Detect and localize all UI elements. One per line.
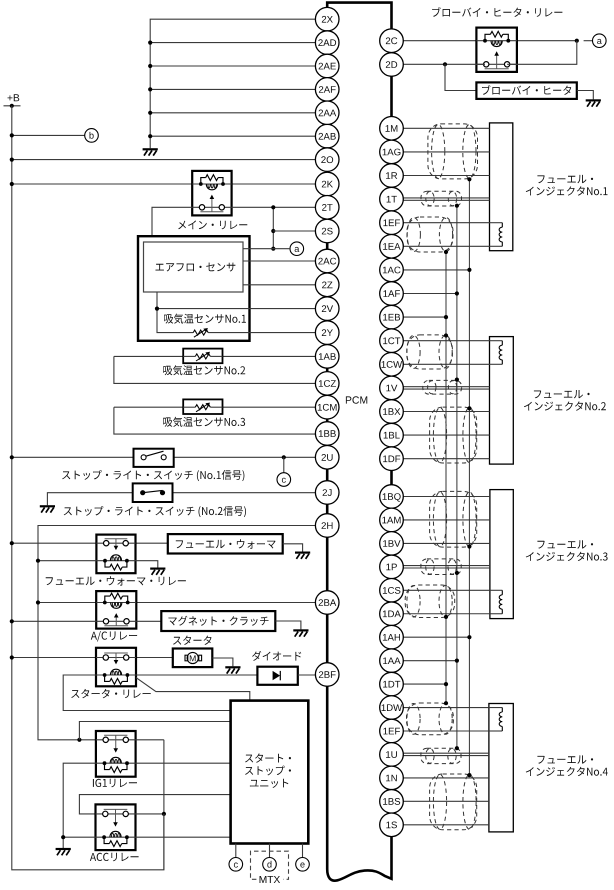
pin 1P <box>380 555 404 579</box>
label injector No.4 line1 <box>537 755 593 763</box>
PCM label <box>346 396 367 403</box>
wire 1AG <box>403 151 489 153</box>
label starter <box>173 636 212 645</box>
pin 1BQ <box>380 485 404 509</box>
unit start-stop (スタート・ストップ・ユニット) <box>231 701 309 844</box>
fuel injector No.3 box <box>490 490 513 619</box>
pin 2AE <box>315 54 339 78</box>
wire 2S branch <box>273 230 315 232</box>
wire battery bus <box>12 106 164 870</box>
wire 1P twisted pair <box>403 565 490 567</box>
wire relay contact right leg <box>507 41 577 65</box>
pin 1BX <box>380 400 404 424</box>
label injector No.2 line2 <box>524 401 606 410</box>
pin 1CS <box>380 579 404 603</box>
pin 1DF <box>380 447 404 471</box>
switch stop light No.1 <box>12 456 134 458</box>
shield injector No.3 signal wires <box>430 491 477 547</box>
wire left column tail with break <box>327 686 391 880</box>
relay starter (スタータ・リレー) <box>12 657 96 659</box>
wire airflow pin3 to 2Z <box>243 284 315 286</box>
pin 1CM <box>315 395 339 419</box>
pin 1AM <box>380 508 404 532</box>
wire 2AA to ground bus <box>150 112 315 114</box>
pin 1CW <box>380 353 404 377</box>
injector No.2 coil 1CT/1CW <box>490 340 503 342</box>
shield injector No.3 coil pair <box>405 585 455 618</box>
wire 1AM <box>403 519 490 521</box>
switch stop light No.2 <box>47 493 132 506</box>
label unit line2 <box>245 766 291 776</box>
shield injector No.2 signal wires <box>430 407 477 463</box>
ground starter motor <box>212 658 233 666</box>
pin 1CT <box>380 329 404 353</box>
wire 1N <box>403 777 489 779</box>
pin 1AC <box>380 258 404 282</box>
wire 2O feed <box>12 159 316 161</box>
label diode <box>252 651 301 661</box>
ground blow-by heater <box>577 91 594 100</box>
pin 1AA <box>380 649 404 673</box>
shield 1P pair <box>421 559 461 575</box>
pin 1V <box>380 376 404 400</box>
node +B <box>8 94 20 101</box>
pin 2T <box>315 196 339 220</box>
box blow-by heater (ブローバイ・ヒータ) <box>476 82 576 99</box>
label unit line3 <box>250 779 288 788</box>
pin 2H <box>315 514 339 538</box>
pin 2AD <box>315 31 339 55</box>
shield 1U pair <box>421 748 461 763</box>
wire 1BX <box>403 411 489 413</box>
ground IG1/ACC coils <box>63 836 95 838</box>
pin 1DT <box>380 672 404 696</box>
injector No.4 coil 1DW/1EF <box>489 707 502 709</box>
sensor airflow (エアフロ・センサ) outer box <box>138 236 250 341</box>
pin 1AH <box>380 625 404 649</box>
node a (left) <box>290 242 304 256</box>
wire shield drain 1 (1AC) <box>468 179 470 775</box>
pin 1BS <box>380 790 404 814</box>
pin 2X <box>315 7 339 31</box>
shield 1T pair <box>421 191 462 206</box>
pin 1BB <box>315 422 339 446</box>
label fuel warmer <box>176 539 276 548</box>
wire 2AE to ground bus <box>150 65 315 67</box>
MTX dashed box <box>251 851 289 879</box>
wire airflow pin2 to 2AC <box>243 260 315 262</box>
label injector No.3 line1 <box>537 540 593 548</box>
pin 2V <box>315 297 339 321</box>
node d <box>269 844 271 858</box>
wire 1T twisted pair <box>403 197 489 199</box>
node c (bottom) <box>235 844 237 858</box>
label main relay <box>178 220 247 229</box>
label injector No.1 line1 <box>537 175 593 183</box>
pin 2Z <box>315 273 339 297</box>
fuel injector No.4 box <box>489 704 513 832</box>
pin 2AF <box>315 78 339 102</box>
node b <box>12 134 85 136</box>
label intake air temp sensor No.1 <box>164 314 246 324</box>
wire 1AH shield return <box>403 636 469 638</box>
wire to blow-by heater <box>445 64 476 90</box>
ground magnet clutch <box>275 621 301 629</box>
label A/C relay <box>91 631 137 642</box>
pin 2U <box>315 446 339 470</box>
wire IG1 coil left down to ground rail <box>63 763 96 848</box>
label stop light switch No.2 <box>64 506 246 517</box>
label airflow sensor <box>156 263 236 272</box>
pin 1U <box>380 743 404 767</box>
pin 1N <box>380 766 404 790</box>
wire 1BQ <box>403 496 490 498</box>
wire 1V twisted pair <box>403 386 489 388</box>
pin 2O <box>315 148 339 172</box>
pin 1AB <box>315 345 339 369</box>
wire airflow IAT to 2V and 2Y <box>157 292 193 333</box>
wire ACC coil right to unit <box>136 836 231 838</box>
relay IG1 (IG1リレー) <box>77 738 81 742</box>
wire shield drain 3 (1EB) <box>445 252 447 703</box>
thermistor intake air temp No.1 <box>193 330 208 335</box>
wire 2AF to ground bus <box>150 88 315 90</box>
injector No.3 coil 1CS/1DA <box>490 589 502 591</box>
wire 1EB shield return <box>403 316 446 318</box>
relay main (メイン・リレー) <box>192 171 231 216</box>
wire main relay contact left to airflow sensor <box>152 207 192 236</box>
pin 1M <box>380 117 404 141</box>
wire 2H control line <box>38 526 315 740</box>
shield injector No.2 coil pair <box>407 335 453 369</box>
relay ACC (ACCリレー) <box>79 795 230 814</box>
wire 1U twisted pair <box>403 752 489 754</box>
wire main relay contact to 2T <box>232 206 316 208</box>
wire 1AF shield return <box>403 293 457 295</box>
relay fuel warmer (フューエル・ウォーマ・リレー) <box>12 542 97 544</box>
label fuel warmer relay <box>46 576 186 585</box>
node e <box>302 844 304 858</box>
ground fuel warmer relay coil <box>136 561 158 568</box>
PCM connector spine <box>327 3 391 29</box>
wire main relay feed <box>12 183 192 185</box>
wire 1BL <box>403 434 489 436</box>
relay blow-by heater (ブローバイ・ヒータ・リレー) <box>403 40 476 42</box>
wire airflow pin1 to junction and a <box>243 248 290 250</box>
wire IG1 coil right to unit <box>136 762 231 764</box>
label injector No.2 line1 <box>534 390 590 398</box>
shield 1V pair <box>423 380 462 394</box>
wire 1S <box>403 824 489 826</box>
label unit line1 <box>245 753 291 762</box>
pin 2AC <box>315 249 339 273</box>
pin 2C <box>380 29 404 53</box>
pin 1AF <box>380 282 404 306</box>
wire 1AA shield return <box>403 660 457 662</box>
wire 1AC shield return <box>403 269 469 271</box>
pin 1EB <box>380 305 404 329</box>
pin 2AA <box>315 101 339 125</box>
node a (top right) <box>584 40 593 42</box>
label injector No.1 line2 <box>526 186 608 195</box>
wire 1M <box>403 127 489 129</box>
label blow-by heater relay <box>432 7 562 17</box>
shield injector No.4 coil pair <box>407 703 454 735</box>
shield injector No.1 coil pair <box>407 217 453 252</box>
pin 1T <box>380 187 404 211</box>
wire 2D to relay contact <box>403 63 485 65</box>
wire fuel warmer relay coil left to 2H line <box>38 560 96 562</box>
pin 1EF <box>380 211 404 235</box>
pin 1EF <box>380 719 404 743</box>
pin 2D <box>380 53 404 77</box>
diode (ダイオード) <box>257 667 297 685</box>
pin 1DA <box>380 602 404 626</box>
pin 1AG <box>380 140 404 164</box>
pin 1DW <box>380 696 404 720</box>
label ACC relay <box>90 853 139 862</box>
motor starter (スタータ) <box>173 649 213 668</box>
label intake air temp sensor No.2 <box>163 365 245 375</box>
wire 1R <box>403 175 489 177</box>
fuel injector No.2 box <box>490 337 514 465</box>
label injector No.3 line2 <box>526 552 608 561</box>
pin 2Y <box>315 321 339 345</box>
box fuel warmer (フューエル・ウォーマ) <box>168 534 283 553</box>
pin 1EA <box>380 235 404 259</box>
pin 1BV <box>380 532 404 556</box>
label stop light switch No.1 <box>62 470 244 481</box>
wire right column links <box>390 76 393 116</box>
pin 2BF <box>315 663 339 687</box>
pin 2S <box>315 219 339 243</box>
pin 2AB <box>315 124 339 148</box>
pin 1R <box>380 164 404 188</box>
label magnet clutch <box>169 616 269 626</box>
label injector No.4 line2 <box>526 767 608 776</box>
wire starter relay coil left to start-stop unit <box>63 675 230 711</box>
pin 2K <box>315 172 339 196</box>
label starter relay <box>71 689 151 698</box>
relay A/C (A/Cリレー) <box>38 602 96 604</box>
wire shield drain 2 (1AF) <box>456 206 458 749</box>
ground top group 2X..2AB <box>150 19 315 148</box>
wire 1BS <box>403 800 489 802</box>
pin 1S <box>380 813 404 837</box>
wire 1DT shield return <box>403 683 446 685</box>
label IG1 relay <box>93 779 137 788</box>
ground stop light switch No.2 <box>40 506 55 512</box>
wire 2AB to ground bus <box>150 135 315 137</box>
injector No.1 coil 1EF/1EA <box>490 222 503 224</box>
shield injector No.4 signal wires <box>430 774 477 830</box>
wire 1DF <box>403 458 489 460</box>
pin 1CZ <box>315 372 339 396</box>
wire 1BV <box>403 542 490 544</box>
pin 2J <box>315 481 339 505</box>
wire IG1 contacts right <box>136 739 164 741</box>
fuel injector No.1 box <box>490 123 513 251</box>
box magnet clutch (マグネット・クラッチ) <box>161 611 275 631</box>
sensor intake air temp No.2 <box>114 355 183 357</box>
pin 2BA <box>315 591 339 615</box>
shield injector No.1 signal wires <box>428 124 478 179</box>
sensor intake air temp No.3 <box>114 406 183 408</box>
label intake air temp sensor No.3 <box>163 417 245 427</box>
label blow-by heater <box>482 85 571 95</box>
wire starter relay coil right to diode and unit <box>136 674 257 676</box>
wire 2AD to ground bus <box>150 42 315 44</box>
wire junction 2T/2S/a <box>272 207 274 248</box>
ground fuel warmer <box>283 544 303 552</box>
pin 1BL <box>380 423 404 447</box>
node c (under 2U line) <box>283 457 285 472</box>
